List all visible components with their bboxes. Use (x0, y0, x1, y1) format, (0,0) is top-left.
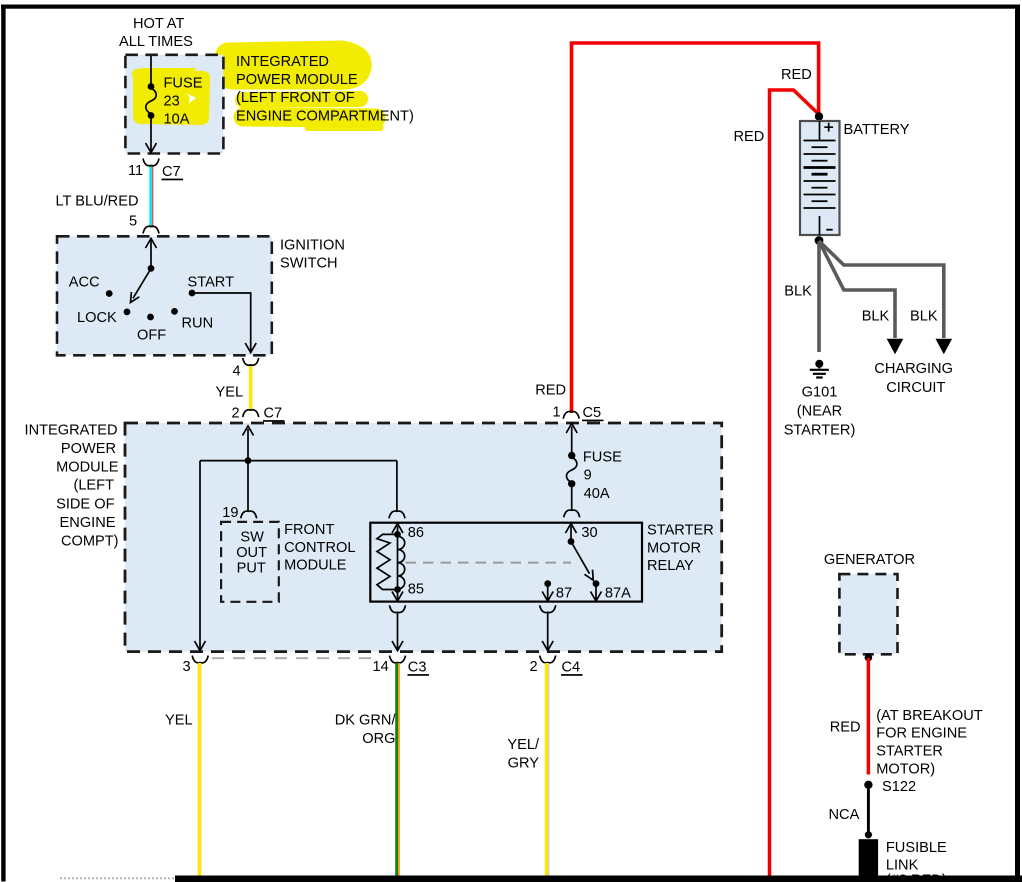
relay coil winding bumps (398, 536, 405, 589)
svg-text:CONTROL: CONTROL (284, 540, 355, 556)
ignition switch dashed box (57, 236, 272, 355)
wire DK GRN/ORG (395, 663, 398, 877)
wire down from relay 87 to IPM edge (547, 613, 549, 649)
svg-text:FOR ENGINE: FOR ENGINE (876, 726, 967, 742)
svg-text:FUSE: FUSE (164, 76, 203, 92)
svg-text:GENERATOR: GENERATOR (824, 552, 915, 568)
svg-text:INTEGRATED: INTEGRATED (25, 423, 118, 439)
integrated power module (left side) dashed box (125, 423, 722, 652)
arrow down from 85 to box edge (397, 591, 399, 599)
svg-text:ACC: ACC (69, 275, 100, 291)
wire YEL (249, 366, 252, 411)
svg-text:2: 2 (530, 659, 538, 675)
wire RED battery feed 2 (770, 90, 819, 877)
relay coil chord (397, 534, 399, 589)
svg-text:RELAY: RELAY (647, 558, 694, 574)
svg-text:MODULE: MODULE (56, 459, 119, 475)
fuse F23 10A (148, 83, 155, 90)
svg-text:MODULE: MODULE (284, 558, 347, 574)
svg-text:BATTERY: BATTERY (844, 122, 910, 138)
svg-text:SIDE OF: SIDE OF (56, 496, 114, 512)
svg-text:SW: SW (240, 530, 264, 546)
position node OFF (147, 314, 154, 321)
ground G101 (815, 360, 823, 368)
wire up to pin 5 with arrow (150, 240, 152, 269)
connector C4 pin 2 (540, 656, 556, 663)
svg-text:ORG: ORG (362, 731, 395, 747)
svg-text:DK GRN/: DK GRN/ (335, 713, 397, 729)
arrowhead charging circuit 1 (887, 339, 904, 355)
svg-text:40A: 40A (584, 486, 610, 502)
svg-text:11: 11 (128, 163, 143, 179)
FRAME (1, 5, 1020, 9)
svg-text:SWITCH: SWITCH (280, 256, 338, 272)
svg-text:RED: RED (535, 383, 566, 399)
svg-text:INTEGRATED: INTEGRATED (236, 54, 329, 70)
svg-text:5: 5 (129, 214, 137, 230)
bus wire horizontal (200, 460, 397, 462)
SW OUTPUT dashed box (221, 522, 279, 602)
svg-text:C3: C3 (408, 660, 427, 676)
svg-text:STARTER): STARTER) (784, 423, 856, 439)
svg-text:POWER MODULE: POWER MODULE (236, 72, 358, 88)
svg-text:COMPT): COMPT) (61, 533, 119, 549)
wire BLK to charging circuit 2 (819, 241, 944, 338)
svg-text:87: 87 (556, 585, 572, 601)
relay switch blade 30 to 87A (571, 542, 590, 574)
relay contact 87 (544, 580, 551, 587)
svg-text:BLK: BLK (910, 309, 938, 325)
connector C3 pin 14 (390, 656, 406, 663)
svg-text:MOTOR): MOTOR) (876, 761, 935, 777)
wire down from relay 85 to IPM edge (397, 613, 399, 649)
svg-text:10A: 10A (164, 112, 190, 128)
highlighter mark over INTEGRATED POWER MODULE text (228, 53, 380, 128)
connector below relay at 87 (540, 605, 556, 612)
svg-text:PUT: PUT (237, 561, 266, 577)
svg-text:LOCK: LOCK (77, 310, 117, 326)
relay contact 87A (593, 580, 600, 587)
svg-text:OFF: OFF (137, 328, 166, 344)
connector above relay pin 30 (564, 510, 580, 517)
svg-text:OUT: OUT (236, 545, 267, 561)
wire YEL/GRY (545, 663, 548, 877)
svg-text:STARTER: STARTER (647, 523, 714, 539)
connector below relay at 85 (390, 605, 406, 612)
svg-text:2: 2 (232, 406, 240, 422)
position node RUN (171, 308, 178, 315)
splice S122 (864, 781, 872, 789)
svg-text:IGNITION: IGNITION (280, 238, 345, 254)
svg-text:S122: S122 (882, 779, 916, 795)
svg-text:GRY: GRY (508, 755, 540, 771)
node battery negative (815, 236, 824, 245)
svg-text:(LEFT FRONT OF: (LEFT FRONT OF (236, 90, 355, 106)
relay coil pin 86 arrow up (397, 526, 399, 532)
battery B1 (800, 121, 840, 235)
svg-text:86: 86 (408, 525, 424, 541)
integrated power module (front) dashed box (125, 55, 223, 154)
svg-text:C4: C4 (562, 660, 581, 676)
svg-text:LT BLU/RED: LT BLU/RED (56, 194, 139, 210)
connector pin 3 (192, 656, 208, 663)
svg-text:C5: C5 (583, 405, 602, 421)
arrowhead charging circuit 2 (936, 339, 953, 355)
svg-text:ENGINE: ENGINE (60, 515, 116, 531)
fuse F9 40A (568, 452, 575, 459)
wire BLK to charging circuit 1 (819, 241, 895, 338)
wire from fuse 9 to relay 30 (571, 485, 573, 510)
switch pivot node (148, 265, 155, 272)
wire from START to pin 4 with arrow (192, 293, 251, 352)
svg-text:C7: C7 (162, 164, 181, 180)
node battery positive (815, 112, 823, 120)
wire entering at pin 2 with up arrow (247, 429, 249, 460)
svg-text:STARTER: STARTER (876, 744, 943, 760)
highlighter mark over fuse box (132, 68, 210, 125)
svg-text:LINK: LINK (886, 858, 919, 874)
svg-text:30: 30 (581, 525, 597, 541)
svg-text:(AT BREAKOUT: (AT BREAKOUT (876, 708, 983, 724)
svg-text:ENGINE COMPARTMENT): ENGINE COMPARTMENT) (236, 108, 414, 124)
wire middle branch down to pin 19 (247, 461, 249, 511)
secondary gray dashed shadow under IPM border (212, 657, 380, 659)
svg-text:RED: RED (734, 129, 765, 145)
fusible link (859, 839, 878, 876)
svg-text:FUSE: FUSE (583, 450, 622, 466)
wire BLK to ground (817, 242, 821, 352)
wire NCA (867, 787, 870, 834)
svg-text:G101: G101 (802, 385, 838, 401)
svg-text:BLK: BLK (862, 309, 890, 325)
connector C7 pin 11 (143, 159, 159, 166)
wire LT BLU/RED (149, 167, 152, 228)
junction node (245, 457, 252, 464)
wire from fuse to box edge with arrow (150, 117, 152, 152)
svg-text:C7: C7 (264, 406, 283, 422)
wire left branch down with arrow (199, 461, 201, 650)
svg-text:RED: RED (830, 720, 861, 736)
svg-text:3: 3 (183, 659, 191, 675)
relay pin 30 arrow up (570, 526, 572, 539)
svg-text:19: 19 (222, 505, 238, 521)
svg-text:MOTOR: MOTOR (647, 540, 701, 556)
node generator output (865, 654, 873, 662)
wire RED generator (867, 658, 871, 775)
bottom scan bar (60, 877, 175, 879)
node above fusible link (865, 831, 872, 838)
svg-text:ALL TIMES: ALL TIMES (119, 34, 193, 50)
svg-text:CHARGING: CHARGING (874, 361, 953, 377)
position node LOCK (124, 309, 131, 316)
svg-text:BLK: BLK (784, 284, 812, 300)
relay coil resistor zigzag (377, 534, 398, 589)
svg-text:HOT AT: HOT AT (133, 16, 184, 32)
connector above relay coil (389, 511, 405, 518)
svg-text:FRONT: FRONT (284, 522, 334, 538)
svg-text:4: 4 (233, 364, 241, 380)
svg-text:YEL: YEL (216, 385, 244, 401)
svg-text:(NEAR: (NEAR (797, 404, 842, 420)
svg-text:CIRCUIT: CIRCUIT (886, 380, 945, 396)
svg-text:POWER: POWER (61, 441, 116, 457)
starter motor relay box (370, 523, 642, 602)
position node ACC (106, 290, 113, 297)
svg-text:FUSIBLE: FUSIBLE (886, 840, 947, 856)
svg-text:YEL/: YEL/ (507, 737, 540, 753)
svg-text:9: 9 (584, 468, 592, 484)
svg-text:YEL: YEL (165, 713, 193, 729)
wire entering IPM with up arrow to fuse 9 (571, 427, 573, 454)
svg-text:23: 23 (164, 94, 180, 110)
mechanical link dashed (406, 562, 572, 564)
svg-text:NCA: NCA (829, 807, 860, 823)
wire into fuse (150, 56, 152, 85)
svg-text:87A: 87A (605, 585, 631, 601)
svg-text:RUN: RUN (182, 316, 214, 332)
switch blade toward LOCK (133, 268, 151, 298)
svg-text:RED: RED (781, 67, 812, 83)
position node START (189, 290, 196, 297)
svg-text:(LEFT: (LEFT (73, 478, 114, 494)
label INTEGRATED POWER MODULE (LEFT SIDE OF ENGINE COMPT) (25, 423, 119, 550)
svg-text:START: START (188, 275, 235, 291)
svg-text:85: 85 (408, 582, 424, 598)
wire right branch down to relay coil (396, 461, 398, 511)
relay coil pin 85 (394, 586, 401, 593)
svg-text:1: 1 (553, 405, 561, 421)
wire RED from battery feed down to pin 1 (572, 43, 819, 413)
svg-text:14: 14 (373, 659, 389, 675)
wire YEL pin 3 (198, 663, 202, 877)
